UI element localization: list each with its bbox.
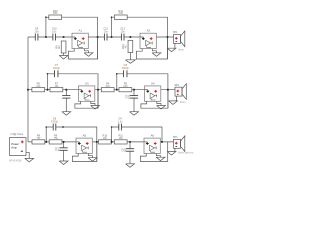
node stage2 output: [166, 36, 168, 38]
svg-text:4k7: 4k7: [124, 44, 128, 49]
ground: [59, 56, 68, 60]
resistor R9b: [49, 140, 62, 144]
source power amp: [10, 138, 27, 156]
wire resistor R12 to ground: [129, 53, 131, 60]
wire bottom row: [28, 141, 174, 143]
svg-text:A2: A2: [147, 29, 151, 33]
svg-text:A3: A3: [85, 81, 89, 85]
wire top row: [28, 36, 174, 38]
node stage5 output: [96, 141, 98, 143]
wire mid row: [28, 89, 175, 91]
feedback wire stage 4: [117, 74, 168, 108]
svg-text:10n: 10n: [34, 29, 39, 33]
capacitor C12: [122, 36, 124, 38]
svg-text:75k: 75k: [36, 136, 41, 140]
svg-text:4n7: 4n7: [123, 147, 127, 152]
resistor R12: [128, 41, 133, 53]
resistor R5: [119, 88, 132, 92]
speaker SP3: [174, 139, 181, 148]
svg-text:A4: A4: [151, 81, 155, 85]
node stage2 fb corner: [111, 16, 113, 18]
node stage3 fb corner: [47, 73, 49, 75]
resistor R8: [32, 140, 45, 144]
node stage4 fb input: [116, 89, 118, 91]
svg-text:16k: 16k: [54, 84, 59, 88]
svg-text:8ohm: 8ohm: [180, 102, 186, 104]
capacitor C4b: [119, 126, 121, 128]
svg-text:SP3: SP3: [173, 136, 178, 139]
feedback wire stage 3: [48, 74, 99, 108]
svg-text:2200p: 2200p: [53, 66, 61, 70]
svg-text:8ohm_spkr.md: 8ohm_spkr.md: [178, 152, 194, 155]
svg-text:A1: A1: [79, 29, 83, 33]
capacitor C5 shunt: [129, 142, 131, 149]
svg-text:75k: 75k: [54, 136, 59, 140]
resistor R10b: [99, 140, 112, 144]
ground: [125, 60, 135, 64]
svg-text:1500p: 1500p: [122, 66, 130, 70]
capacitor C10: [53, 36, 55, 38]
svg-text:1.5@ Vrms: 1.5@ Vrms: [10, 132, 24, 136]
node stage5 fb mid: [62, 126, 64, 128]
wire op-amp A6 feedback rail: [140, 142, 167, 162]
svg-text:680: 680: [119, 11, 124, 15]
svg-text:A5: A5: [83, 134, 87, 138]
node stage6 shunt: [129, 141, 131, 143]
wire op-amp A4 feedback rail: [141, 90, 168, 109]
feedback wire stage 5: [46, 127, 97, 162]
feedback wire stage 1: [46, 17, 98, 59]
node stage1 output: [97, 36, 99, 38]
capacitor C7: [55, 73, 58, 75]
wire source minus to ground: [26, 152, 29, 158]
node stage2 shunt: [129, 36, 131, 38]
capacitor C2 shunt: [63, 142, 65, 148]
node stage6 output: [161, 141, 163, 143]
wire capacitor C8 to ground: [65, 98, 67, 112]
op-amp A1: [72, 33, 88, 48]
wire op-amp A5 feedback rail: [72, 142, 96, 162]
node mid row input: [27, 89, 29, 91]
node stage4 output: [167, 89, 169, 91]
capacitor C6: [53, 126, 55, 128]
svg-text:SP1: SP1: [173, 31, 178, 34]
resistor R10: [49, 15, 62, 19]
svg-text:680: 680: [53, 11, 58, 15]
ground: [126, 164, 135, 168]
node stage5 fb corner: [45, 126, 47, 128]
svg-text:620: 620: [106, 84, 111, 88]
wire resistor R9 to ground: [63, 53, 65, 56]
svg-text:620: 620: [123, 84, 128, 88]
capacitor C11: [105, 36, 107, 38]
resistor R11b: [114, 140, 127, 144]
svg-text:4n7: 4n7: [56, 146, 60, 151]
wire capacitor C5 to ground: [129, 151, 131, 164]
node stage3 shunt: [65, 89, 67, 91]
node stage3 output: [97, 89, 99, 91]
op-amp A3: [79, 86, 95, 101]
wire input rail: [27, 37, 29, 142]
ground: [130, 112, 139, 116]
svg-text:16k: 16k: [36, 84, 41, 88]
svg-text:1.5n: 1.5n: [118, 119, 124, 123]
svg-text:HP-IB 4558: HP-IB 4558: [9, 159, 22, 162]
svg-text:10n: 10n: [104, 29, 109, 33]
wire op-amp A1 feedback rail: [68, 37, 97, 59]
node stage1 fb corner: [45, 16, 47, 18]
op-amp A4: [145, 86, 161, 101]
capacitor C9: [35, 36, 37, 38]
svg-text:4700p: 4700p: [51, 119, 59, 123]
node stage2 fb input: [110, 36, 112, 38]
svg-text:15n: 15n: [127, 94, 131, 99]
svg-text:8ohm: 8ohm: [178, 49, 184, 51]
node stage3 fb input: [46, 89, 48, 91]
ground: [25, 158, 34, 162]
op-amp A6: [144, 138, 160, 153]
wire op-amp A2 feedback rail: [136, 37, 167, 59]
svg-text:10n: 10n: [121, 29, 126, 33]
capacitor C4 shunt: [133, 90, 135, 96]
svg-text:A6: A6: [151, 134, 155, 138]
svg-text:SP2: SP2: [174, 84, 179, 87]
ground: [62, 112, 71, 116]
capacitor C8 shunt: [65, 90, 67, 96]
svg-text:Amp: Amp: [11, 146, 17, 150]
resistor R4: [101, 88, 114, 92]
svg-text:10n: 10n: [52, 29, 57, 33]
node stage4 fb corner: [116, 73, 118, 75]
wire capacitor C2 to ground: [63, 150, 65, 161]
ground: [59, 161, 68, 165]
svg-text:Power: Power: [11, 142, 19, 146]
svg-text:18k: 18k: [119, 136, 124, 140]
op-amp A2: [140, 33, 156, 48]
node stage5 fb input: [45, 141, 47, 143]
node stage1 fb input: [45, 36, 47, 38]
op-amp A5: [76, 138, 92, 153]
feedback wire stage 6: [112, 127, 162, 142]
svg-text:18k: 18k: [103, 136, 108, 140]
resistor R6: [32, 88, 45, 92]
resistor R7: [50, 88, 63, 92]
wire capacitor C4 to ground: [133, 98, 135, 112]
wire op-amp A3 feedback rail: [75, 90, 98, 109]
capacitor C3: [124, 73, 127, 75]
resistor R11: [114, 15, 127, 19]
node stage6 fb input: [111, 141, 113, 143]
svg-text:4k7: 4k7: [57, 44, 61, 49]
node stage5 shunt: [63, 141, 65, 143]
node stage1 shunt: [63, 36, 65, 38]
resistor R9: [61, 41, 66, 53]
speaker SP2: [175, 87, 182, 96]
feedback wire stage 2: [112, 17, 168, 59]
speaker SP1: [174, 35, 181, 44]
node stage6 fb corner: [111, 126, 113, 128]
node stage4 shunt: [133, 89, 135, 91]
